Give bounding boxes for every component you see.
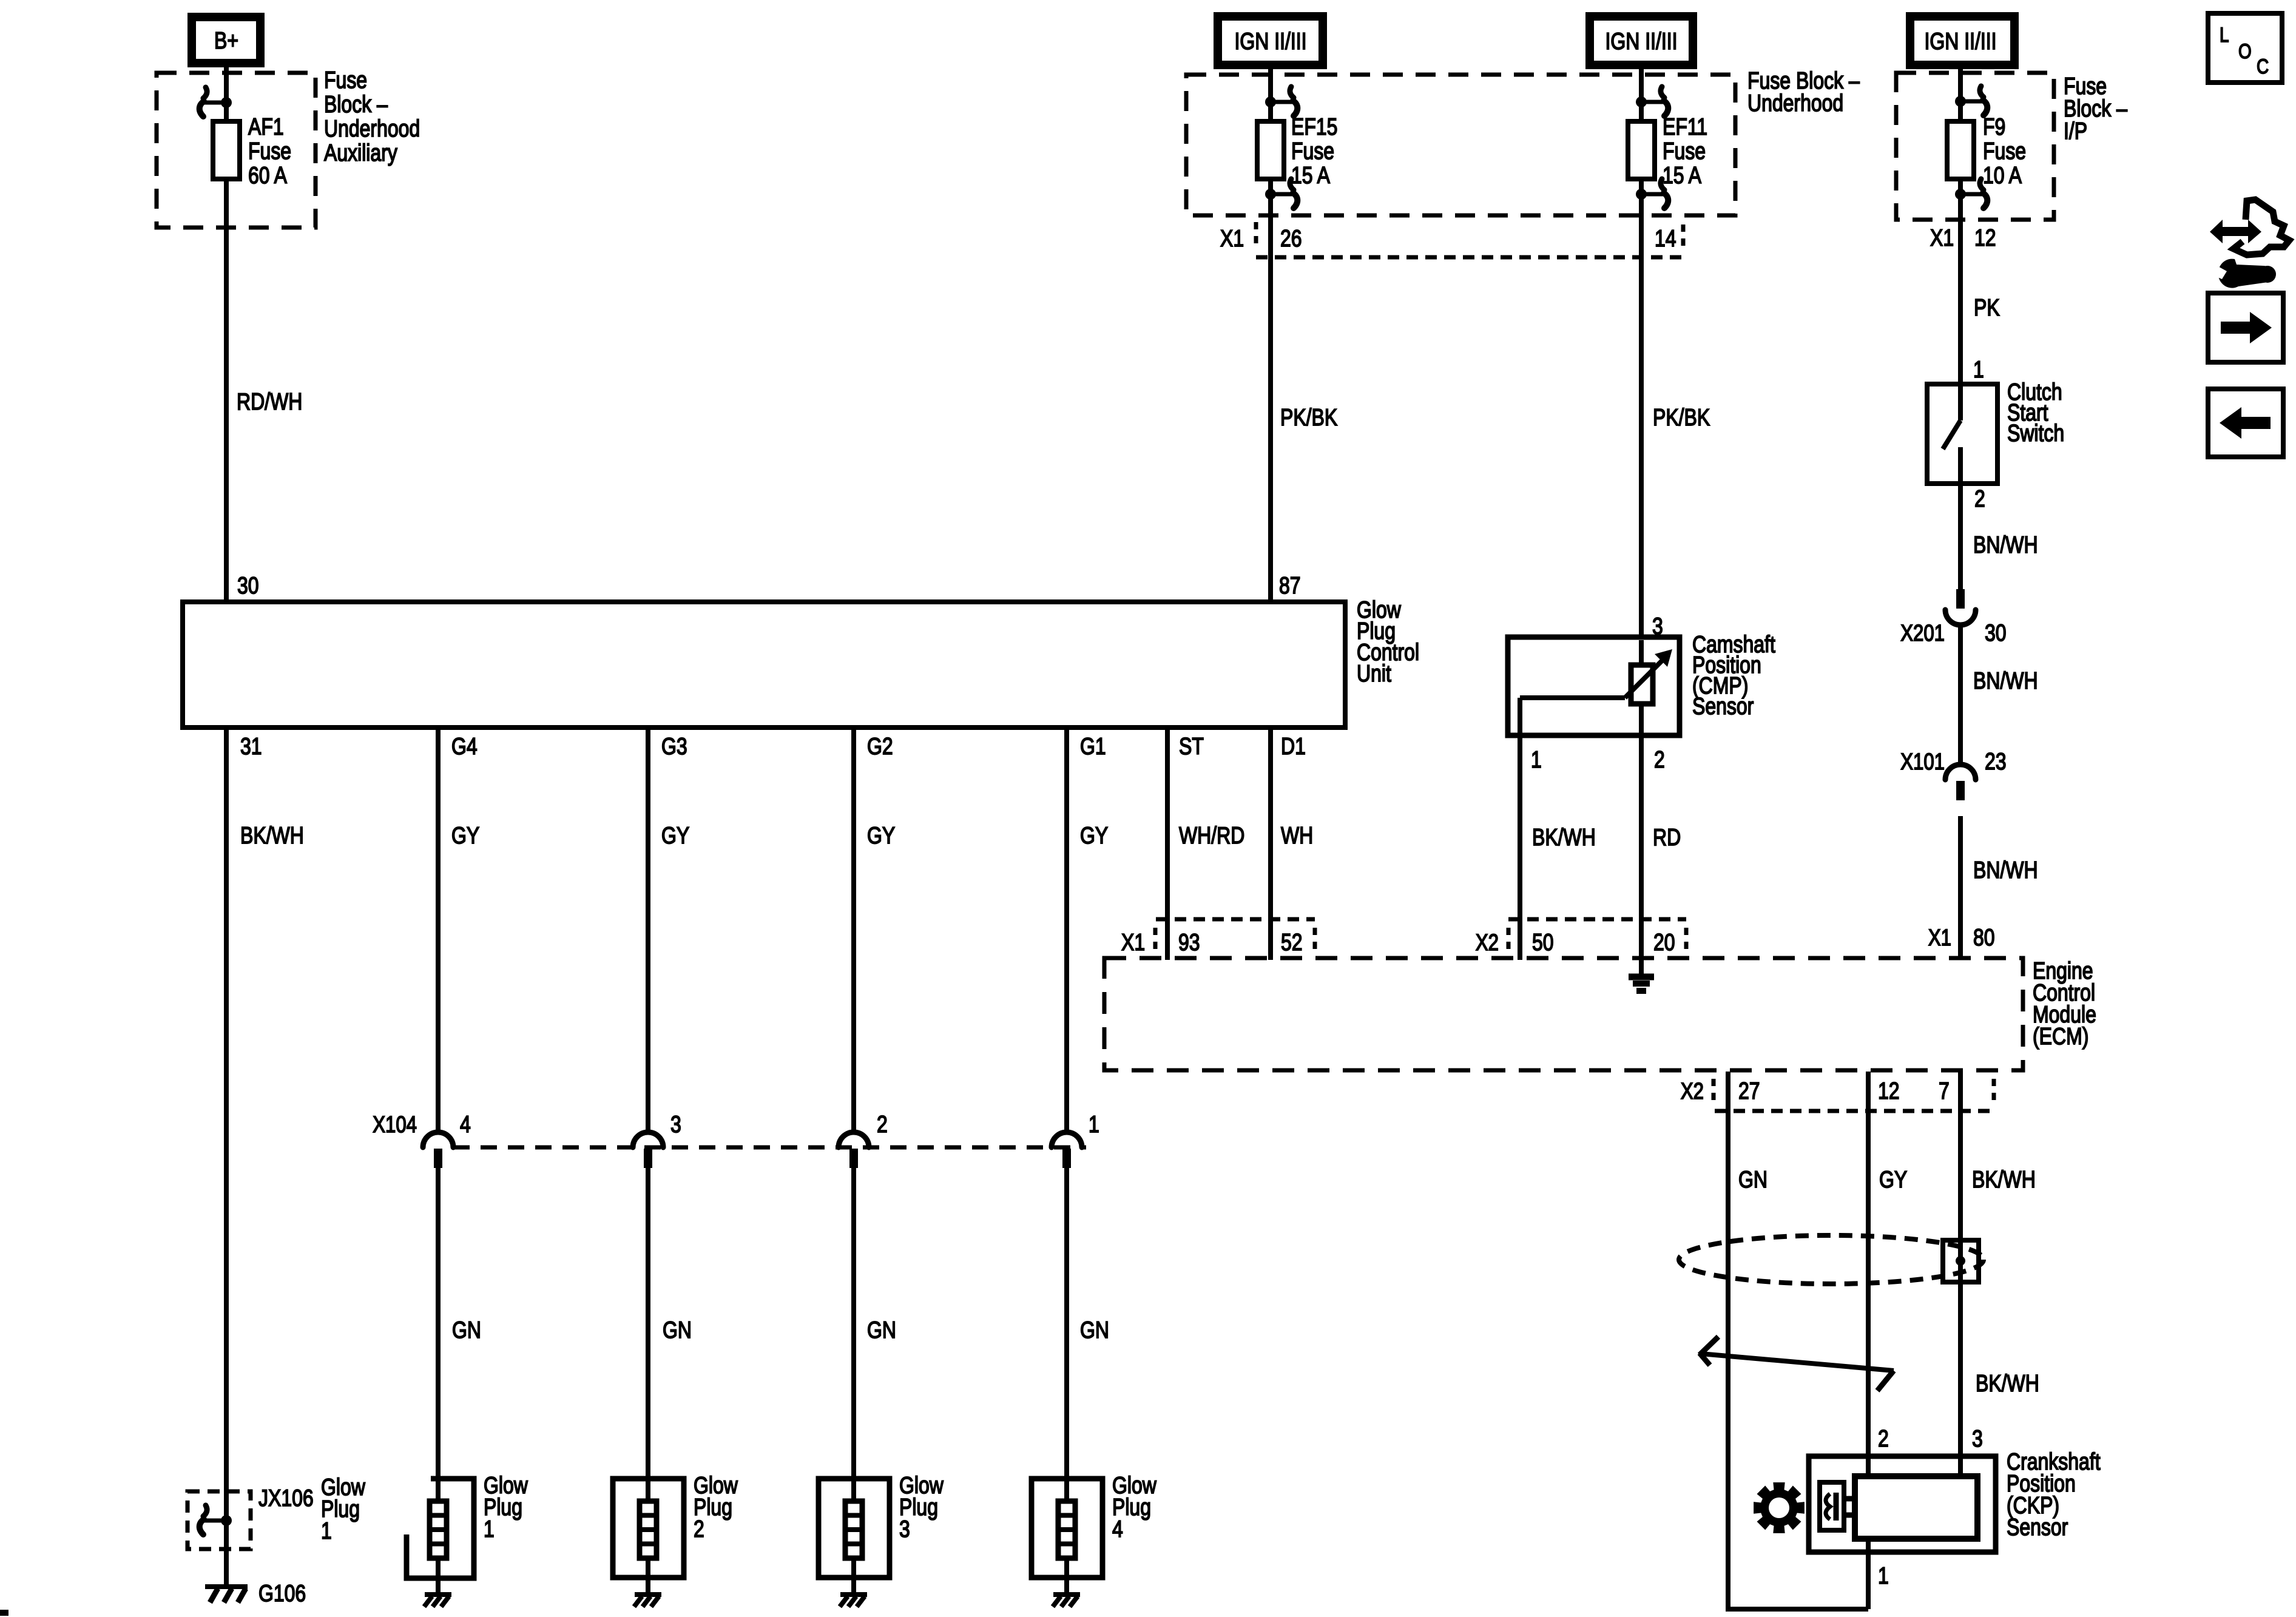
connector X104 pin 1 — [1052, 1132, 1082, 1168]
pin labels X1 80 — [1928, 924, 1995, 951]
pin labels X2 27 12 7 — [1681, 1078, 1950, 1104]
glow plug 1 (C-shaped housing) — [407, 1479, 474, 1578]
label wire BN/WH (2) — [1973, 667, 2038, 694]
svg-text:2: 2 — [1654, 746, 1665, 773]
wire GY ECM X2-12 to CKP sensor pin 2 — [1866, 1072, 1871, 1479]
pins 2,3 CKP sensor — [1878, 1425, 1983, 1452]
wire BN/WH X201-30 to X101-23 — [1958, 625, 1963, 766]
svg-text:IGN II/III: IGN II/III — [1605, 28, 1677, 55]
wire CKP pin 1 inside sensor — [1866, 1539, 1871, 1555]
svg-text:WH/RD: WH/RD — [1179, 822, 1244, 849]
svg-text:20: 20 — [1653, 929, 1675, 956]
svg-text:GN: GN — [663, 1317, 692, 1343]
glow plug control unit U1 — [183, 602, 1345, 727]
shield ellipse (dashed) around CKP wires — [1679, 1235, 1984, 1284]
label fuse block underhood — [1747, 67, 1860, 116]
svg-text:Switch: Switch — [2007, 420, 2064, 447]
svg-text:BK/WH: BK/WH — [240, 822, 304, 849]
label wire PK/BK (EF11) — [1653, 404, 1710, 431]
svg-text:23: 23 — [1985, 748, 2007, 775]
label wire PK/BK (EF15) — [1280, 404, 1337, 431]
inline connector box with junction on BK/WH — [1943, 1240, 1979, 1282]
fuse F9 10A — [1947, 86, 1987, 208]
svg-text:93: 93 — [1178, 929, 1200, 956]
svg-text:BN/WH: BN/WH — [1973, 857, 2038, 883]
connector X1 row (fuse block underhood outputs 26,14) — [1256, 222, 1686, 257]
svg-text:12: 12 — [1974, 224, 1996, 251]
pin labels glow plug control unit outputs — [240, 733, 1306, 760]
pin 2 clutch start switch — [1974, 485, 1985, 512]
svg-text:GY: GY — [451, 822, 479, 849]
wire WH/RD ST to ECM X1-93 — [1165, 727, 1170, 960]
svg-text:O: O — [2238, 39, 2252, 62]
svg-text:2: 2 — [1974, 485, 1985, 512]
wire PK/BK IGN to EF15 fuse to pin 87 — [1268, 65, 1273, 604]
svg-text:BK/WH: BK/WH — [1972, 1166, 2036, 1193]
svg-text:1: 1 — [321, 1517, 332, 1544]
svg-text:Underhood: Underhood — [1747, 90, 1843, 116]
clutch start switch — [1927, 384, 1997, 484]
svg-text:BN/WH: BN/WH — [1973, 667, 2038, 694]
pin label 14 — [1655, 225, 1676, 252]
label fuse EF11 — [1663, 113, 1707, 189]
svg-text:G3: G3 — [661, 733, 687, 760]
label glow plug control unit — [1357, 596, 1419, 687]
pin 87 glow plug control unit — [1279, 572, 1301, 599]
svg-text:80: 80 — [1973, 924, 1995, 951]
svg-text:X2: X2 — [1476, 930, 1499, 956]
label glow plug 3 — [899, 1472, 944, 1542]
power terminal B+ — [192, 17, 260, 63]
svg-text:IGN II/III: IGN II/III — [1234, 28, 1306, 55]
label CMP sensor — [1692, 631, 1775, 720]
labels wire colors below control unit — [240, 822, 1313, 849]
svg-text:EF15: EF15 — [1291, 113, 1337, 140]
wire GN glow plug 4 circuit (G1 to X104-1 to glow plug 4) — [1064, 727, 1069, 1594]
svg-text:EF11: EF11 — [1663, 113, 1707, 140]
glow plug 3 — [819, 1479, 890, 1578]
labels X104 pins — [373, 1111, 1099, 1138]
svg-text:(ECM): (ECM) — [2033, 1023, 2088, 1050]
label fuse block I/P — [2064, 73, 2127, 144]
connector X2 row into ECM (50,20) — [1508, 919, 1686, 954]
svg-text:GY: GY — [867, 822, 895, 849]
svg-text:GN: GN — [1738, 1166, 1768, 1193]
svg-text:I/P: I/P — [2064, 118, 2087, 144]
svg-text:Fuse: Fuse — [1983, 138, 2026, 164]
svg-text:G106: G106 — [258, 1580, 306, 1607]
svg-text:RD/WH: RD/WH — [237, 388, 302, 415]
wire BK/WH glow plug control unit pin 31 to ground G106 — [224, 727, 229, 1585]
power terminal IGN II/III (EF11) — [1590, 16, 1693, 65]
svg-text:GN: GN — [452, 1317, 481, 1343]
svg-text:ST: ST — [1179, 733, 1204, 760]
ground glow plug 2 — [634, 1595, 661, 1607]
connector X104 row (dashed link) — [453, 1146, 1086, 1150]
fuse EF15 15A — [1257, 87, 1297, 208]
ground G106 — [205, 1587, 248, 1602]
label glow plug 1 feed — [321, 1474, 365, 1544]
svg-text:87: 87 — [1279, 572, 1301, 599]
fuse EF11 15A — [1628, 87, 1668, 208]
svg-text:G2: G2 — [867, 733, 893, 760]
svg-text:AF1: AF1 — [248, 113, 284, 140]
svg-text:BK/WH: BK/WH — [1976, 1370, 2039, 1397]
power terminal IGN II/III (EF15) — [1218, 16, 1323, 65]
svg-text:Sensor: Sensor — [2007, 1514, 2068, 1541]
wire BN/WH X101-23 to ECM X1-80 — [1958, 816, 1963, 960]
connector X104 pin 4 — [423, 1132, 453, 1168]
svg-text:G1: G1 — [1080, 733, 1106, 760]
label glow plug 1 — [484, 1472, 528, 1542]
label wire BN/WH (3) — [1973, 857, 2038, 883]
svg-text:3: 3 — [1972, 1425, 1983, 1452]
wire GN glow plug 2 circuit (G3 to X104-3 to glow plug 2) — [646, 727, 650, 1594]
svg-text:JX106: JX106 — [258, 1485, 314, 1511]
pin 1 CKP sensor — [1878, 1562, 1889, 1589]
svg-text:BN/WH: BN/WH — [1973, 532, 2038, 558]
svg-text:RD: RD — [1653, 824, 1681, 851]
svg-text:GN: GN — [1080, 1317, 1109, 1343]
back arrow box — [2208, 389, 2283, 457]
svg-text:X101: X101 — [1900, 749, 1945, 775]
svg-text:L: L — [2220, 23, 2229, 46]
svg-text:15 A: 15 A — [1291, 162, 1330, 189]
wire WH D1 to ECM X1-52 — [1268, 727, 1273, 960]
label wire BN/WH (1) — [1973, 532, 2038, 558]
svg-text:4: 4 — [460, 1111, 471, 1138]
svg-text:X1: X1 — [1930, 224, 1954, 251]
svg-text:Sensor: Sensor — [1692, 693, 1754, 720]
svg-text:Unit: Unit — [1357, 660, 1391, 687]
connector X104 pin 3 — [633, 1132, 663, 1168]
connector X2 row out of ECM (27,12,7) — [1714, 1079, 1997, 1111]
svg-text:GY: GY — [1879, 1166, 1907, 1193]
LOC legend box — [2208, 13, 2282, 83]
ground glow plug 4 — [1053, 1595, 1080, 1607]
svg-text:X1: X1 — [1928, 925, 1951, 951]
svg-text:X1: X1 — [1220, 225, 1244, 252]
pin 30 glow plug control unit — [237, 572, 259, 599]
svg-text:WH: WH — [1281, 822, 1313, 849]
junction JX106 (dashed box with clip) — [187, 1491, 251, 1549]
svg-text:3: 3 — [899, 1516, 910, 1542]
svg-text:F9: F9 — [1983, 113, 2005, 140]
labels wire GN x4 — [452, 1317, 1109, 1343]
svg-text:Fuse: Fuse — [248, 138, 291, 164]
svg-text:1: 1 — [1973, 356, 1984, 383]
svg-text:2: 2 — [1878, 1425, 1889, 1452]
svg-text:7: 7 — [1939, 1078, 1950, 1104]
svg-text:1: 1 — [1531, 746, 1542, 773]
label fuse block underhood auxiliary — [324, 67, 420, 166]
label connector X201 30 — [1900, 619, 2006, 646]
label fuse AF1 — [248, 113, 291, 189]
svg-text:Block –: Block – — [324, 91, 388, 118]
gear (reluctor wheel) icon — [1754, 1482, 1805, 1533]
ground at ECM X2-20 — [1629, 960, 1654, 991]
wire PK/BK IGN to EF11 fuse to CMP sensor pin 3 — [1639, 65, 1644, 665]
fuse block I/P (dashed box) — [1896, 73, 2054, 220]
label fuse EF15 — [1291, 113, 1337, 189]
label JX106 — [258, 1485, 314, 1511]
svg-text:PK/BK: PK/BK — [1280, 404, 1337, 431]
labels wire GN GY BK/WH below ECM — [1738, 1166, 2036, 1193]
fuse block underhood (dashed box) — [1186, 75, 1735, 215]
svg-text:15 A: 15 A — [1663, 162, 1701, 189]
svg-text:50: 50 — [1532, 929, 1554, 956]
svg-text:Underhood: Underhood — [324, 115, 420, 142]
engine control module ECM (dashed box) — [1104, 958, 2023, 1070]
svg-text:60 A: 60 A — [248, 162, 287, 189]
pins 1,2 CMP sensor — [1531, 746, 1665, 773]
camshaft position CMP sensor — [1508, 637, 1680, 735]
svg-text:B+: B+ — [214, 27, 238, 54]
label glow plug 4 — [1112, 1472, 1156, 1542]
wire B+ feed RD/WH (battery to glow plug control unit pin 30) — [224, 63, 229, 604]
pin labels X1 93 52 — [1121, 929, 1303, 956]
svg-text:PK/BK: PK/BK — [1653, 404, 1710, 431]
wire GN glow plug 3 circuit (G2 to X104-2 to glow plug 3) — [851, 727, 856, 1594]
svg-text:2: 2 — [877, 1111, 888, 1138]
svg-text:3: 3 — [670, 1111, 681, 1138]
svg-text:X2: X2 — [1681, 1079, 1704, 1104]
pin 3 CMP sensor — [1652, 613, 1663, 640]
svg-text:X1: X1 — [1121, 929, 1145, 956]
pin label X1 26 — [1220, 225, 1302, 252]
twisted pair arrow — [1700, 1337, 1894, 1391]
label glow plug 2 — [694, 1472, 738, 1542]
svg-text:1: 1 — [1878, 1562, 1889, 1589]
connector X201 pin 30 — [1945, 589, 1976, 625]
power terminal IGN II/III (F9) — [1910, 16, 2014, 65]
svg-text:4: 4 — [1112, 1516, 1123, 1542]
svg-text:1: 1 — [1089, 1111, 1099, 1138]
svg-text:30: 30 — [237, 572, 259, 599]
scan artifact dot bottom-left — [0, 1610, 8, 1616]
wire BK/WH ECM X2-7 to CKP sensor pin 3 — [1958, 1072, 1963, 1479]
pin label X1 12 — [1930, 224, 1996, 251]
svg-text:D1: D1 — [1281, 733, 1306, 760]
svg-text:27: 27 — [1738, 1078, 1760, 1104]
crankshaft position CKP sensor — [1809, 1456, 1996, 1552]
svg-text:C: C — [2257, 55, 2269, 78]
pin 1 clutch start switch — [1973, 356, 1984, 383]
connector X101 pin 23 — [1945, 765, 1976, 800]
svg-text:X201: X201 — [1900, 621, 1945, 646]
connector X104 pin 2 — [839, 1132, 869, 1168]
svg-text:Fuse: Fuse — [1291, 138, 1334, 164]
labels wire BK/WH RD at CMP — [1532, 824, 1681, 851]
svg-text:Auxiliary: Auxiliary — [324, 140, 397, 166]
label clutch start switch — [2007, 379, 2064, 447]
wire BK/WH CMP sensor pin 1 to ECM X2-50 — [1518, 698, 1522, 960]
svg-text:X104: X104 — [373, 1112, 417, 1138]
glow plug 4 — [1032, 1479, 1102, 1578]
label fuse F9 — [1983, 113, 2026, 189]
fuse AF1 60A — [200, 87, 240, 179]
pin labels X2 50 20 — [1476, 929, 1675, 956]
wire RD CMP sensor pin 2 to ECM X2-20 ground — [1639, 704, 1644, 976]
label connector X101 23 — [1900, 748, 2006, 775]
svg-text:1: 1 — [484, 1516, 495, 1542]
svg-text:30: 30 — [1985, 619, 2007, 646]
label CKP sensor — [2007, 1448, 2101, 1541]
svg-text:GN: GN — [867, 1317, 896, 1343]
svg-text:12: 12 — [1878, 1078, 1900, 1104]
glow plug 2 — [613, 1479, 684, 1578]
svg-text:GY: GY — [661, 822, 689, 849]
svg-text:2: 2 — [694, 1516, 704, 1542]
wire BN/WH clutch start switch pin 2 to X201-30 — [1958, 484, 1963, 590]
adjustable component icon (hand with wrench) — [2210, 200, 2289, 288]
svg-text:BK/WH: BK/WH — [1532, 824, 1596, 851]
svg-text:G4: G4 — [451, 733, 478, 760]
svg-text:Fuse: Fuse — [324, 67, 367, 93]
svg-text:Fuse: Fuse — [1663, 138, 1706, 164]
label wire RD/WH — [237, 388, 302, 415]
wire PK IGN to F9 fuse to clutch start switch pin 1 — [1958, 65, 1963, 384]
fuse block underhood auxiliary (dashed box) — [157, 73, 316, 228]
svg-text:GY: GY — [1080, 822, 1108, 849]
wire GN glow plug 1 circuit (G4 to X104-4 to glow plug 1) — [436, 727, 441, 1594]
forward arrow box — [2208, 293, 2283, 362]
svg-text:26: 26 — [1280, 225, 1302, 252]
svg-text:10 A: 10 A — [1983, 162, 2022, 189]
svg-text:PK: PK — [1974, 294, 2000, 321]
label wire BK/WH at CKP — [1976, 1370, 2039, 1397]
ground glow plug 1 — [424, 1595, 451, 1607]
svg-text:31: 31 — [240, 733, 262, 760]
wire GN ECM X2-27 to CKP sensor pin 1 — [1726, 1072, 1868, 1609]
svg-text:52: 52 — [1281, 929, 1303, 956]
svg-text:IGN II/III: IGN II/III — [1924, 28, 1996, 55]
svg-text:14: 14 — [1655, 225, 1676, 252]
label engine control module — [2033, 957, 2096, 1050]
connector X1 row into ECM (93,52) — [1155, 919, 1315, 954]
label wire PK — [1974, 294, 2000, 321]
label G106 — [258, 1580, 306, 1607]
ground glow plug 3 — [840, 1595, 867, 1607]
